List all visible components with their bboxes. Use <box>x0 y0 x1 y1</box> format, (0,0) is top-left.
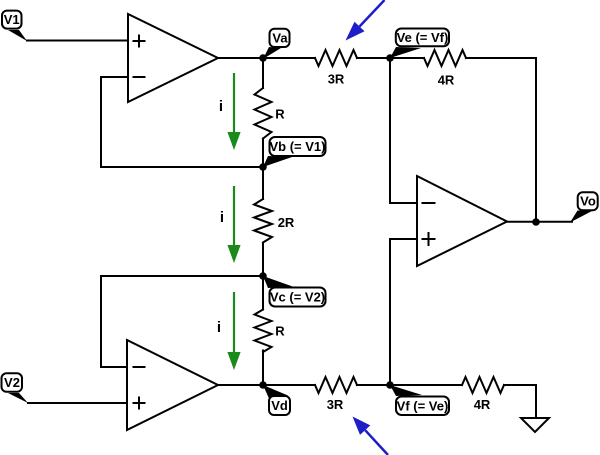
svg-text:3R: 3R <box>328 72 345 87</box>
svg-text:Va: Va <box>272 31 288 46</box>
svg-text:Vf (= Ve): Vf (= Ve) <box>397 398 449 413</box>
svg-text:4R: 4R <box>474 397 491 412</box>
svg-text:Vo: Vo <box>580 194 596 209</box>
svg-text:V1: V1 <box>4 12 20 27</box>
svg-text:3R: 3R <box>327 397 344 412</box>
svg-text:Vc (= V2): Vc (= V2) <box>270 290 325 305</box>
svg-text:i: i <box>220 209 224 226</box>
svg-text:2R: 2R <box>278 215 295 230</box>
svg-text:V2: V2 <box>4 375 20 390</box>
svg-text:4R: 4R <box>438 73 455 88</box>
svg-text:Ve (= Vf): Ve (= Vf) <box>397 30 449 45</box>
svg-text:i: i <box>219 98 223 115</box>
svg-text:Vd: Vd <box>271 398 288 413</box>
svg-text:R: R <box>275 107 285 122</box>
svg-text:Vb (= V1): Vb (= V1) <box>270 139 326 154</box>
svg-text:R: R <box>275 324 285 339</box>
svg-text:i: i <box>217 319 221 336</box>
